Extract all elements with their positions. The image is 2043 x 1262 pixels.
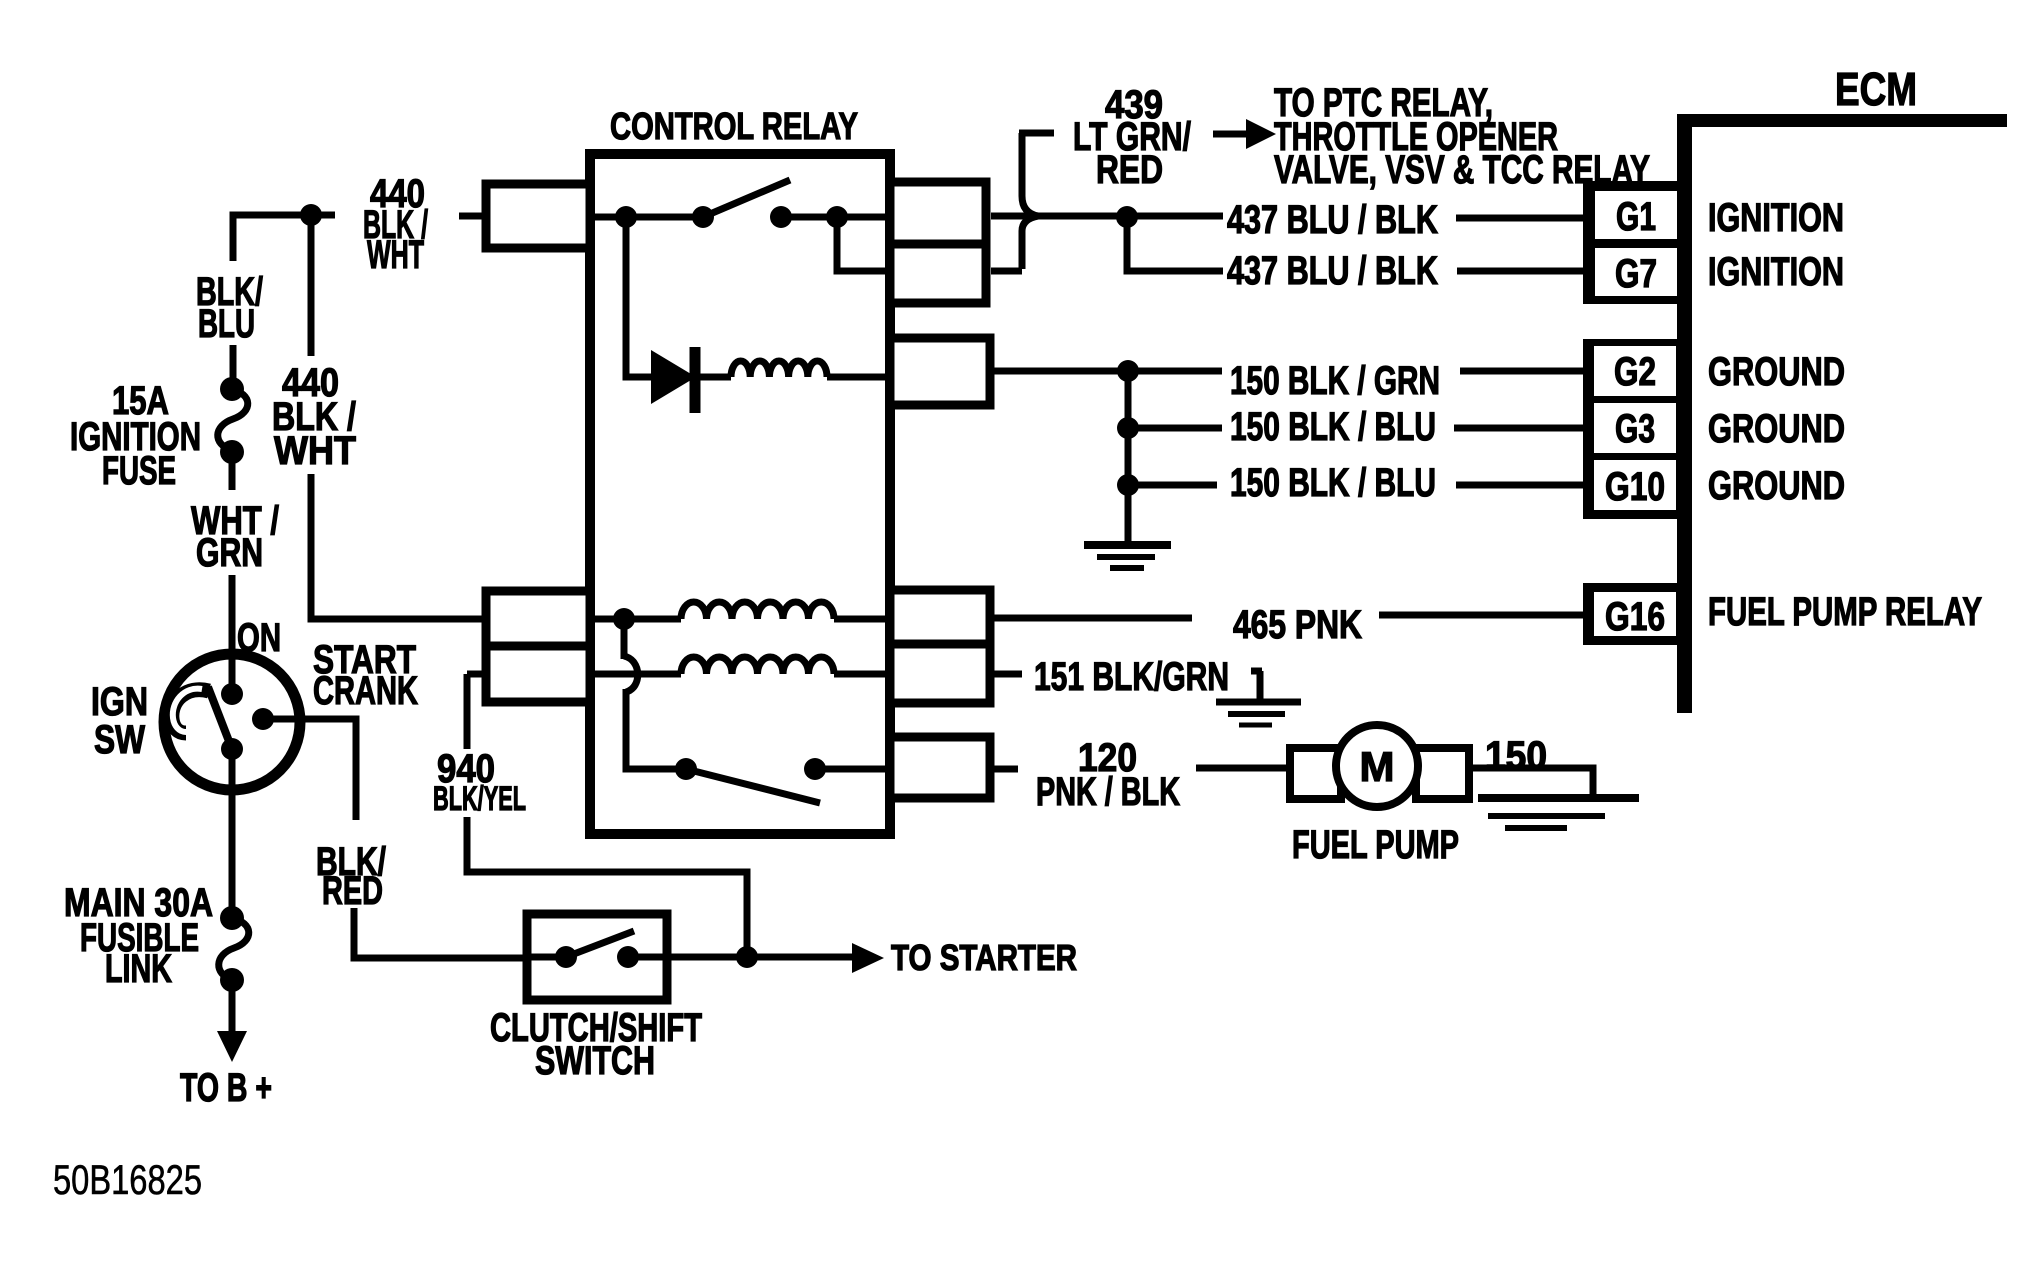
svg-text:IGNITION: IGNITION [1708,196,1844,240]
svg-text:G16: G16 [1605,595,1665,639]
svg-text:150 BLK / BLU: 150 BLK / BLU [1230,461,1436,505]
svg-text:WHT: WHT [274,429,356,473]
svg-text:GROUND: GROUND [1708,464,1845,508]
svg-text:G7: G7 [1615,252,1657,296]
svg-text:FUSE: FUSE [102,449,176,493]
svg-text:437 BLU / BLK: 437 BLU / BLK [1227,249,1438,293]
svg-text:PNK / BLK: PNK / BLK [1036,770,1180,814]
svg-text:GRN: GRN [196,531,263,575]
svg-text:SW: SW [94,718,145,762]
svg-text:150: 150 [1485,734,1547,778]
svg-text:465 PNK: 465 PNK [1233,603,1362,647]
svg-text:G3: G3 [1615,407,1655,451]
svg-text:GROUND: GROUND [1708,407,1845,451]
svg-text:WHT: WHT [367,233,424,277]
svg-text:G2: G2 [1614,350,1656,394]
svg-text:50B16825: 50B16825 [53,1156,202,1203]
svg-text:CRANK: CRANK [313,669,418,713]
svg-text:FUEL PUMP: FUEL PUMP [1292,823,1459,867]
svg-text:SWITCH: SWITCH [535,1039,655,1083]
svg-text:TO B +: TO B + [180,1066,272,1110]
svg-text:RED: RED [322,869,383,913]
svg-text:LINK: LINK [105,947,172,991]
svg-text:FUEL PUMP RELAY: FUEL PUMP RELAY [1708,590,1982,634]
svg-text:GROUND: GROUND [1708,350,1845,394]
svg-text:M: M [1360,743,1395,790]
svg-text:G10: G10 [1605,465,1665,509]
svg-text:RED: RED [1096,148,1163,192]
svg-text:VALVE, VSV & TCC RELAY: VALVE, VSV & TCC RELAY [1274,148,1650,192]
svg-text:CONTROL RELAY: CONTROL RELAY [610,106,858,148]
svg-text:150 BLK / GRN: 150 BLK / GRN [1230,359,1440,403]
svg-text:ECM: ECM [1835,63,1917,115]
svg-text:150 BLK / BLU: 150 BLK / BLU [1230,405,1436,449]
svg-text:437 BLU / BLK: 437 BLU / BLK [1227,198,1438,242]
svg-text:G1: G1 [1616,195,1656,239]
svg-text:BLK/YEL: BLK/YEL [433,780,526,818]
svg-text:TO STARTER: TO STARTER [891,937,1077,978]
svg-text:IGNITION: IGNITION [1708,250,1844,294]
svg-text:ON: ON [237,616,281,660]
svg-text:151 BLK/GRN: 151 BLK/GRN [1034,655,1229,699]
svg-text:BLU: BLU [198,302,255,346]
